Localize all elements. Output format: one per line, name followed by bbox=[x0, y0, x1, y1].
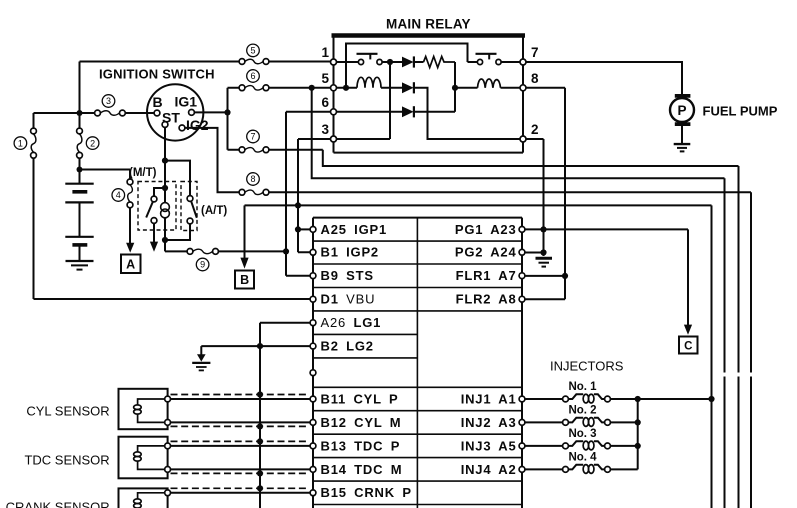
wire W4 injector feed wrap bbox=[245, 205, 712, 508]
svg-text:3: 3 bbox=[106, 96, 111, 106]
node injector feed bbox=[708, 396, 714, 402]
svg-text:PG1 A23: PG1 A23 bbox=[455, 222, 517, 237]
svg-text:2: 2 bbox=[90, 138, 95, 148]
node injector bus row2 bbox=[635, 419, 641, 425]
fuse 4 bbox=[112, 170, 133, 244]
node IGP to injector feed bbox=[295, 202, 301, 208]
svg-text:INJ3 A5: INJ3 A5 bbox=[461, 438, 517, 453]
fuse 9 bbox=[187, 249, 218, 271]
ECU pin INJ4 A2 bbox=[461, 462, 525, 477]
node ST to M/T bbox=[162, 185, 168, 191]
wire to clutch switch bbox=[80, 169, 131, 171]
relay contact K2 bbox=[468, 54, 521, 65]
box C with arrow bbox=[679, 229, 698, 353]
ground PG bbox=[536, 258, 553, 266]
wire pin7 to fuel pump bbox=[526, 62, 682, 96]
svg-text:B15 CRNK P: B15 CRNK P bbox=[321, 485, 412, 500]
svg-text:7: 7 bbox=[250, 132, 255, 142]
relay pin 7 bbox=[520, 45, 539, 65]
fuse 8 bbox=[239, 173, 269, 196]
svg-text:FUEL PUMP: FUEL PUMP bbox=[703, 104, 778, 119]
svg-text:INJ2 A3: INJ2 A3 bbox=[461, 415, 517, 430]
ignition switch bbox=[147, 84, 209, 140]
svg-text:B1 IGP2: B1 IGP2 bbox=[321, 245, 379, 260]
svg-text:5: 5 bbox=[250, 46, 255, 56]
svg-text:5: 5 bbox=[321, 71, 329, 86]
ECU pin FLR2 A8 bbox=[456, 292, 525, 307]
wire W2 IG1 wrap bbox=[312, 88, 725, 508]
svg-text:FLR2 A8: FLR2 A8 bbox=[456, 292, 517, 307]
svg-text:INJECTORS: INJECTORS bbox=[550, 359, 624, 374]
wire battery B+ rail bbox=[34, 62, 331, 114]
svg-text:B14 TDC M: B14 TDC M bbox=[321, 462, 403, 477]
node injector bus row1 bbox=[635, 396, 641, 402]
node IGP to A25 bbox=[295, 226, 301, 232]
svg-text:IG1: IG1 bbox=[175, 94, 198, 110]
svg-text:9: 9 bbox=[200, 260, 205, 270]
svg-text:No. 2: No. 2 bbox=[568, 405, 596, 417]
shield CYL bbox=[171, 395, 310, 427]
wire TDC P bbox=[171, 445, 311, 447]
svg-text:4: 4 bbox=[116, 190, 121, 200]
dashed box A/T bbox=[181, 182, 197, 231]
diode D3 bbox=[337, 106, 456, 117]
svg-text:8: 8 bbox=[250, 174, 255, 184]
svg-text:PG2 A24: PG2 A24 bbox=[455, 245, 517, 260]
node shield taps bbox=[257, 391, 263, 491]
node PG2 junction bbox=[540, 249, 546, 255]
relay pin 3 bbox=[321, 122, 336, 142]
box A with arrow bbox=[121, 243, 141, 273]
relay contact K1 bbox=[337, 54, 391, 65]
wire CYL M bbox=[171, 421, 311, 423]
diode D2 bbox=[402, 82, 520, 139]
fuel pump P bbox=[670, 96, 694, 124]
svg-text:A25 IGP1: A25 IGP1 bbox=[321, 222, 387, 237]
wire pin6 to B9 STS bbox=[286, 112, 331, 276]
injector No.2 bbox=[525, 405, 638, 427]
svg-text:No. 3: No. 3 bbox=[568, 428, 596, 440]
svg-text:(A/T): (A/T) bbox=[201, 205, 227, 217]
svg-text:ST: ST bbox=[162, 110, 180, 126]
ground LG bbox=[192, 354, 210, 370]
ECU pin D1 VBU bbox=[310, 292, 375, 307]
svg-text:D1 VBU: D1 VBU bbox=[321, 292, 376, 307]
battery bbox=[65, 184, 93, 260]
svg-text:6: 6 bbox=[250, 71, 255, 81]
fuse 1 bbox=[14, 113, 310, 299]
relay coil K1 bbox=[337, 77, 403, 88]
node PG1 junction bbox=[540, 226, 546, 232]
box B with arrow bbox=[235, 205, 254, 288]
svg-text:INJ4 A2: INJ4 A2 bbox=[461, 462, 517, 477]
wire IG1 vertical bbox=[227, 88, 229, 150]
wire CYL P bbox=[171, 398, 311, 400]
wire IG2 to fuse 8 bbox=[185, 128, 239, 192]
node IG1 junction bbox=[224, 109, 230, 115]
svg-text:2: 2 bbox=[531, 122, 539, 137]
svg-text:IGNITION SWITCH: IGNITION SWITCH bbox=[99, 67, 215, 82]
sensor CYL bbox=[119, 389, 171, 429]
shield CRANK bbox=[171, 487, 310, 489]
ECU pin B13 TDC P bbox=[310, 438, 400, 453]
fuse 7 bbox=[228, 130, 323, 153]
ground fuel pump bbox=[674, 126, 691, 151]
wire FLR1 stub bbox=[525, 275, 565, 277]
ECU pin spare bbox=[310, 370, 316, 376]
injector No.1 bbox=[525, 381, 712, 403]
svg-text:1: 1 bbox=[321, 45, 329, 60]
svg-text:B11 CYL P: B11 CYL P bbox=[321, 391, 399, 406]
svg-text:B12 CYL M: B12 CYL M bbox=[321, 415, 402, 430]
ECU pin PG1 A23 bbox=[455, 222, 525, 237]
wire TDC M bbox=[171, 468, 311, 470]
node injector bus row3 bbox=[635, 443, 641, 449]
node coil K2 feed bbox=[452, 85, 458, 91]
ECU pin A26 LG1 bbox=[310, 315, 381, 330]
relay pin 2 bbox=[520, 122, 539, 142]
node STS junction bbox=[283, 248, 289, 254]
wire pin2 to ground bbox=[526, 139, 544, 256]
node ST bottom junction bbox=[162, 237, 168, 243]
svg-text:TDC SENSOR: TDC SENSOR bbox=[24, 453, 109, 468]
switch A/T bbox=[165, 161, 197, 240]
svg-text:IG2: IG2 bbox=[186, 117, 209, 133]
svg-text:C: C bbox=[684, 341, 692, 353]
ECU pin B9 STS bbox=[310, 268, 374, 283]
svg-text:B9 STS: B9 STS bbox=[321, 268, 374, 283]
switch M/T clutch bbox=[146, 188, 165, 252]
svg-text:A26 LG1: A26 LG1 bbox=[321, 315, 382, 330]
wire CRNK P bbox=[171, 492, 311, 494]
wire relay inner frame bbox=[346, 44, 468, 88]
fuse 5 bbox=[239, 44, 269, 64]
svg-text:INJ1 A1: INJ1 A1 bbox=[461, 391, 517, 406]
svg-text:No. 1: No. 1 bbox=[568, 381, 597, 393]
ECU pin B12 CYL M bbox=[310, 415, 401, 430]
relay pin 5 bbox=[321, 71, 336, 91]
ECU pin B1 IGP2 bbox=[310, 245, 379, 260]
svg-text:B: B bbox=[153, 94, 163, 110]
svg-text:6: 6 bbox=[321, 95, 329, 110]
wire pin3 IGP feed bbox=[298, 139, 331, 252]
wire A25 stub bbox=[298, 228, 310, 230]
fuse 2 bbox=[77, 113, 99, 184]
node FLR1 junction bbox=[562, 273, 568, 279]
svg-text:B2 LG2: B2 LG2 bbox=[321, 339, 374, 354]
svg-text:3: 3 bbox=[321, 122, 329, 137]
dashed box M/T clutch switch bbox=[138, 182, 176, 231]
node ST to A/T bbox=[162, 158, 168, 164]
node B+ junction bbox=[77, 110, 83, 116]
coil interlock solenoid bbox=[161, 203, 170, 218]
ECU pin B2 LG2 bbox=[310, 339, 374, 354]
sensor CRANK bbox=[119, 488, 171, 508]
wire PG2 stub bbox=[525, 252, 544, 254]
wire injector bus bbox=[637, 399, 639, 469]
wire IG1 to junction bbox=[194, 111, 227, 113]
svg-text:MAIN RELAY: MAIN RELAY bbox=[386, 17, 471, 32]
svg-text:7: 7 bbox=[531, 45, 539, 60]
node relay contact output bbox=[387, 59, 393, 65]
ECU pin B14 TDC M bbox=[310, 462, 402, 477]
fuse 6 bbox=[228, 70, 331, 91]
wire pin3 branch bbox=[337, 62, 391, 139]
wire W1 fuse7 wrap bbox=[323, 150, 739, 508]
svg-text:B: B bbox=[240, 273, 249, 287]
diode D1 bbox=[390, 56, 424, 67]
ECU pin INJ2 A3 bbox=[461, 415, 525, 430]
relay pin 1 bbox=[321, 45, 336, 65]
ECU pin INJ3 A5 bbox=[461, 438, 525, 453]
svg-text:FLR1 A7: FLR1 A7 bbox=[456, 268, 517, 283]
node IGP tap on pin5 wire bbox=[309, 85, 315, 91]
ECU pin PG2 A24 bbox=[455, 245, 525, 260]
wire resistor to coil node bbox=[454, 62, 456, 112]
ECU connector box bbox=[313, 218, 522, 508]
ECU pin INJ1 A1 bbox=[461, 391, 525, 406]
ECU pin FLR1 A7 bbox=[456, 268, 525, 283]
injector No.3 bbox=[525, 428, 638, 450]
wire pin8 to FLR bbox=[525, 88, 565, 299]
node coil K1 feed bbox=[343, 85, 349, 91]
sensor TDC bbox=[119, 437, 171, 479]
svg-text:CRANK SENSOR: CRANK SENSOR bbox=[6, 500, 110, 508]
svg-text:1: 1 bbox=[18, 138, 23, 148]
wire ST vertical bbox=[165, 127, 286, 251]
node battery junction bbox=[77, 167, 83, 173]
relay coil K2 bbox=[455, 79, 520, 88]
wire LG1 bbox=[260, 323, 310, 346]
wire LG2 to ground bbox=[201, 346, 310, 354]
svg-text:P: P bbox=[677, 103, 686, 118]
svg-text:8: 8 bbox=[531, 71, 539, 86]
relay pin 6 bbox=[321, 95, 336, 115]
svg-text:A: A bbox=[126, 257, 135, 271]
shield TDC bbox=[171, 441, 310, 473]
svg-text:B13 TDC P: B13 TDC P bbox=[321, 438, 401, 453]
node LG junction bbox=[257, 343, 263, 349]
svg-text:(M/T): (M/T) bbox=[129, 167, 157, 179]
wire PG1 row bbox=[525, 228, 688, 230]
svg-text:No. 4: No. 4 bbox=[568, 452, 597, 464]
ground battery bbox=[66, 261, 94, 270]
injector No.4 bbox=[525, 452, 638, 474]
wire W3 fuse8 wrap bbox=[269, 192, 751, 508]
wire shield drain vertical bbox=[259, 346, 261, 508]
relay pin 8 bbox=[520, 71, 539, 91]
resistor R1 bbox=[424, 57, 456, 68]
ECU pin A25 IGP1 bbox=[310, 222, 387, 237]
ECU pin B11 CYL P bbox=[310, 391, 398, 406]
svg-text:CYL SENSOR: CYL SENSOR bbox=[26, 403, 109, 418]
ECU pin B15 CRNK P bbox=[310, 485, 412, 500]
main relay box bbox=[332, 36, 526, 153]
fuse 3 bbox=[95, 95, 126, 116]
